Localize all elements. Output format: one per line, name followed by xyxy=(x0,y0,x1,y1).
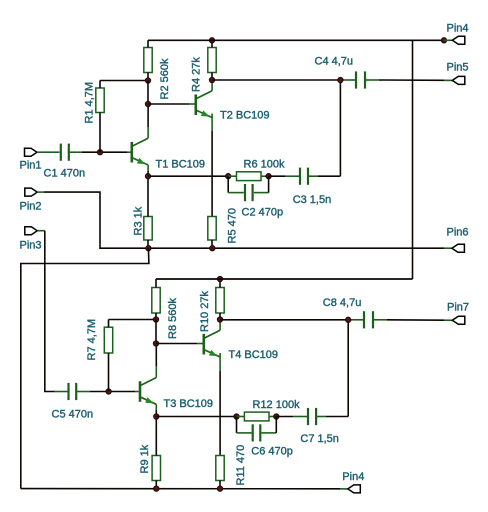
svg-text:R12 100k: R12 100k xyxy=(253,399,301,411)
svg-text:Pin3: Pin3 xyxy=(20,240,42,252)
svg-text:C4 4,7u: C4 4,7u xyxy=(315,56,354,68)
node R2 bottom / R1 top xyxy=(145,78,150,83)
capacitor C6 470p xyxy=(251,424,293,457)
node T3 emitter junction xyxy=(154,414,159,419)
wire bottom ground rail xyxy=(21,488,348,490)
wire T4 emitter to R11 xyxy=(219,353,221,456)
resistor R7 4,7M xyxy=(86,319,113,361)
capacitor C7 1,5n xyxy=(300,408,339,445)
node R5 bottom on ground rail xyxy=(210,246,215,251)
resistor R1 4,7M xyxy=(84,82,105,124)
svg-text:T2 BC109: T2 BC109 xyxy=(220,109,270,121)
wire C3 to output node xyxy=(308,80,340,176)
wire C6 left branch xyxy=(237,417,252,433)
resistor R2 560k xyxy=(144,48,171,100)
svg-text:C2 470p: C2 470p xyxy=(242,206,284,218)
node output to C4 junction xyxy=(338,77,343,82)
transistor T3 BC109 xyxy=(140,378,213,411)
resistor R12 100k xyxy=(244,399,300,421)
svg-text:C7 1,5n: C7 1,5n xyxy=(300,433,339,445)
wire R7 top to R8 bottom xyxy=(109,320,157,328)
pin Pin1 (input A) xyxy=(20,148,42,171)
wire R8 leads xyxy=(155,279,157,320)
node T1 emitter junction xyxy=(145,174,150,179)
svg-text:C6 470p: C6 470p xyxy=(251,446,293,458)
node R6 left junction xyxy=(226,174,231,179)
wire C8 to Pin7 xyxy=(373,319,452,322)
svg-text:T3 BC109: T3 BC109 xyxy=(164,398,214,410)
node output to C8 junction xyxy=(346,317,351,322)
wire Pin2 to ground rail xyxy=(37,192,148,248)
svg-text:R6 100k: R6 100k xyxy=(244,158,285,170)
svg-text:Pin5: Pin5 xyxy=(447,61,469,73)
svg-text:R8 560k: R8 560k xyxy=(167,298,179,339)
wire R3 bottom lead xyxy=(147,240,149,248)
svg-text:R10 27k: R10 27k xyxy=(199,291,211,332)
wire Pin3 to C5 xyxy=(37,231,67,392)
wire T2 base xyxy=(148,103,195,105)
transistor T2 BC109 xyxy=(196,91,270,122)
wire T3 emitter feedback rail xyxy=(156,416,236,418)
wire T4 collector lead xyxy=(219,320,221,331)
wire R5 bottom lead xyxy=(211,240,213,248)
node R6 right junction xyxy=(266,174,271,179)
svg-text:Pin6: Pin6 xyxy=(447,226,469,238)
node V+ rail to Pin4 xyxy=(441,38,446,43)
capacitor C4 4,7u xyxy=(315,56,366,89)
svg-text:R7 4,7M: R7 4,7M xyxy=(86,319,98,361)
pin Pin3 (input B) xyxy=(20,227,42,252)
wire C4 to Pin5 xyxy=(365,79,452,81)
wire lower V+ rail xyxy=(156,278,413,280)
node R12 right junction xyxy=(274,414,279,419)
svg-text:C5 470n: C5 470n xyxy=(52,409,94,421)
wire ground step to lower channel xyxy=(21,248,149,488)
capacitor C3 1,5n xyxy=(293,168,332,206)
pin Pin5 (output A) xyxy=(447,61,469,84)
capacitor C5 470n xyxy=(52,383,94,421)
capacitor C2 470p xyxy=(242,184,284,218)
resistor R3 1k xyxy=(133,206,153,240)
wire C2 right branch xyxy=(254,176,269,192)
svg-text:Pin4: Pin4 xyxy=(447,23,469,35)
svg-text:T1 BC109: T1 BC109 xyxy=(156,159,206,171)
svg-text:R1 4,7M: R1 4,7M xyxy=(84,82,96,124)
svg-text:C1 470n: C1 470n xyxy=(44,168,86,180)
wire R12 left lead xyxy=(237,416,245,418)
wire R3 top lead xyxy=(147,176,149,216)
wire T4 base xyxy=(156,343,203,345)
resistor R6 100k xyxy=(237,158,285,180)
svg-text:R2 560k: R2 560k xyxy=(159,58,171,99)
wire R6 to C3 xyxy=(269,175,299,177)
node T1 base junction xyxy=(97,150,102,155)
pin Pin4 (V+) xyxy=(444,23,469,45)
wire C5 to T3 base node xyxy=(76,391,139,393)
svg-text:R3 1k: R3 1k xyxy=(133,206,145,235)
svg-text:R5 470: R5 470 xyxy=(227,208,239,243)
resistor R4 27k xyxy=(191,48,217,93)
svg-text:T4 BC109: T4 BC109 xyxy=(229,349,279,361)
wire R6 left lead xyxy=(228,175,236,177)
wire R9 top lead xyxy=(155,417,157,456)
wire R1 top to R2 bottom xyxy=(100,81,148,89)
pin Pin7 (output B) xyxy=(447,302,469,325)
wire C2 left branch xyxy=(228,176,244,192)
resistor R9 1k xyxy=(139,444,161,480)
wire Pin1 to C1 xyxy=(37,151,60,153)
wire R12 right lead xyxy=(269,416,276,418)
wire T3 emitter lead xyxy=(155,404,157,416)
wire R2 leads xyxy=(147,40,149,80)
wire ground rail xyxy=(148,247,452,249)
svg-text:C3 1,5n: C3 1,5n xyxy=(293,194,332,206)
capacitor C8 4,7u xyxy=(323,297,373,328)
resistor R10 27k xyxy=(199,288,224,333)
node R9 bottom on bottom rail xyxy=(154,486,159,491)
resistor R11 470 xyxy=(216,445,247,486)
resistor R8 560k xyxy=(152,288,179,340)
wire V+ rail top xyxy=(148,39,444,41)
svg-text:Pin1: Pin1 xyxy=(20,160,42,172)
node T4 base junction xyxy=(153,341,158,346)
node R8 bottom / R7 top xyxy=(153,317,158,322)
node R12 left junction xyxy=(234,414,239,419)
svg-text:Pin4: Pin4 xyxy=(342,471,364,483)
wire R6 right lead xyxy=(261,175,269,177)
transistor T4 BC109 xyxy=(204,330,278,361)
svg-text:R11 470: R11 470 xyxy=(235,445,247,486)
svg-text:C8 4,7u: C8 4,7u xyxy=(323,297,362,309)
node T2 base junction xyxy=(145,101,150,106)
node R4 bottom output node xyxy=(209,77,214,82)
wire C1 to T1 base node xyxy=(69,151,131,153)
node T3 base junction xyxy=(106,389,111,394)
wire R12 to C7 xyxy=(276,416,307,418)
wire output node to C8 xyxy=(220,319,363,321)
node R11 bottom on bottom rail xyxy=(217,486,222,491)
node R3 bottom on ground rail xyxy=(146,246,151,251)
capacitor C1 470n xyxy=(44,144,86,180)
wire R1 bottom lead xyxy=(99,113,101,153)
node R10 top on lower V+ rail xyxy=(217,276,222,281)
svg-text:Pin7: Pin7 xyxy=(447,302,469,314)
wire R7 bottom lead xyxy=(108,353,110,392)
wire T2 emitter to R5 xyxy=(211,114,213,217)
wire T1 emitter feedback rail xyxy=(148,175,228,177)
node R4 top on V+ rail xyxy=(209,38,214,43)
wire R9 bottom lead xyxy=(155,481,157,489)
wire R10 leads xyxy=(219,279,221,320)
wire T1 emitter lead xyxy=(147,165,149,176)
wire T1 collector to T2 base node xyxy=(147,81,149,105)
wire T1 collector lead xyxy=(147,104,149,138)
wire R4 leads xyxy=(211,40,213,80)
wire R11 bottom lead xyxy=(219,481,221,489)
wire T2 collector lead xyxy=(211,80,213,91)
pin Pin4 bottom (V+ return) xyxy=(342,471,364,493)
wire C6 right branch xyxy=(261,417,276,433)
pin Pin6 (ground B) xyxy=(447,226,469,252)
resistor R5 470 xyxy=(208,208,239,243)
wire output node to C4 xyxy=(212,79,355,81)
transistor T1 BC109 xyxy=(132,138,205,170)
pin Pin2 (ground A) xyxy=(20,188,42,212)
svg-text:R4 27k: R4 27k xyxy=(191,57,203,92)
wire C7 to output node xyxy=(316,320,348,417)
wire T3 collector to T4 base node xyxy=(155,320,157,344)
node R10 bottom output node xyxy=(217,317,222,322)
wire V+ drop rail to lower channel xyxy=(156,40,413,279)
wire T3 collector lead xyxy=(155,344,157,378)
svg-text:Pin2: Pin2 xyxy=(20,201,42,213)
svg-text:R9 1k: R9 1k xyxy=(139,444,151,473)
